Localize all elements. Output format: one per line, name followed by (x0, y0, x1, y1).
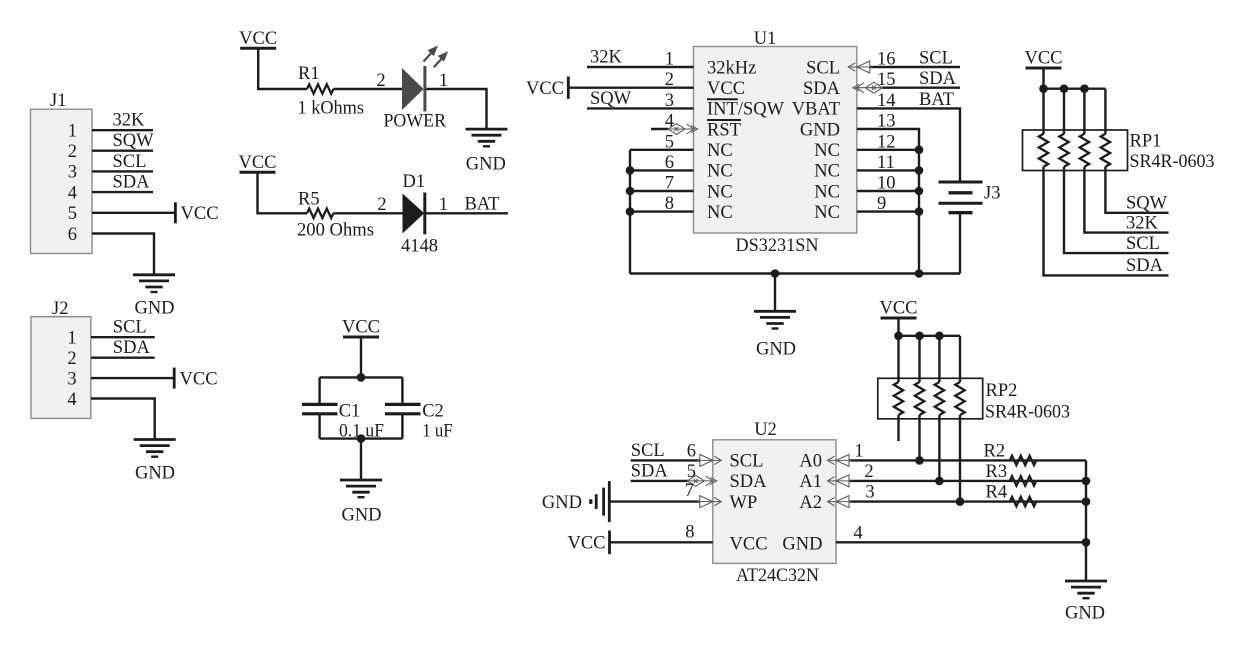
svg-text:200 Ohms: 200 Ohms (297, 221, 374, 241)
net label SDA (U2 pin 5) (631, 461, 669, 481)
power VCC (RP2) (879, 299, 917, 319)
wire U2 pin 4 GND to rail (836, 541, 1086, 543)
wire U1 pin 15 net SDA (882, 86, 960, 88)
power VCC (J2 pin 3) (174, 368, 217, 390)
net label BAT (U1 pin 14) (919, 90, 954, 110)
wire J2 pin 3 to VCC (91, 377, 174, 379)
svg-text:SQW: SQW (1126, 194, 1168, 214)
D1 pin 2 number (377, 195, 386, 215)
svg-text:GND: GND (466, 154, 506, 174)
svg-text:14: 14 (877, 91, 896, 111)
svg-text:POWER: POWER (384, 112, 447, 132)
wire U1 pin 13 GND (857, 129, 919, 274)
IC U2 part number AT24C32N (736, 566, 819, 586)
svg-text:1: 1 (854, 441, 863, 461)
wire RP2 resistor 4 top lead (959, 336, 961, 382)
wire RP1 top bus (1044, 87, 1106, 89)
value 1 kOhms (298, 98, 365, 118)
wire cap top bus (320, 376, 403, 378)
svg-text:4: 4 (665, 112, 674, 132)
IC U2 body (713, 440, 836, 564)
junction RP1 r2 (1060, 84, 1069, 93)
wire R5 to D1 pin 2 (333, 212, 402, 214)
net label 32K (RP1) (1126, 213, 1159, 233)
svg-text:32K: 32K (590, 48, 623, 68)
svg-text:RP2: RP2 (986, 381, 1018, 401)
svg-text:R3: R3 (986, 462, 1008, 482)
svg-text:4: 4 (67, 390, 76, 410)
J1 pin 5 number (68, 204, 77, 224)
net label SCL (J1 pin 3) (113, 152, 147, 172)
svg-text:INT/SQW: INT/SQW (707, 100, 785, 120)
wire U1 pin 8 NC (630, 210, 694, 212)
U2 pin name WP (730, 493, 758, 513)
svg-text:1: 1 (665, 50, 674, 70)
svg-text:1: 1 (67, 329, 76, 349)
battery J3 plates (939, 182, 983, 213)
value 200 Ohms (297, 221, 374, 241)
U1 pin name INT/SQW (pin 3) (707, 100, 785, 120)
U1 pin name SCL (pin 16) (806, 58, 840, 78)
resistor pack RP2 element 4 (955, 382, 964, 415)
svg-text:SCL: SCL (919, 49, 953, 69)
svg-text:NC: NC (814, 203, 840, 223)
svg-text:16: 16 (877, 50, 896, 70)
svg-text:RST: RST (707, 120, 741, 140)
junction RP2 r3 (935, 332, 944, 341)
svg-text:SDA: SDA (1126, 256, 1164, 276)
resistor R3 (1010, 476, 1036, 485)
wire cap bottom bus (320, 437, 403, 439)
junction RP2 r1 (894, 332, 903, 341)
J1 pin 6 number (68, 225, 77, 245)
connector J2 body (31, 317, 91, 419)
svg-text:VCC: VCC (567, 534, 605, 554)
wire RP2 resistor 1 top lead (897, 336, 899, 382)
wire U2 pin 6 net SCL (631, 459, 701, 461)
wire C2 top lead (401, 377, 403, 404)
U1 pin name GND (pin 13) (800, 120, 840, 140)
U1 pin 11 number (877, 153, 895, 173)
resistor pack RP1 element 1 (1039, 134, 1048, 167)
op IC U1 refdes (754, 29, 777, 49)
ground label GND (caps) (341, 506, 381, 526)
svg-text:SCL: SCL (806, 58, 840, 78)
connector J1 refdes (50, 91, 66, 111)
label RP1 (1130, 132, 1162, 152)
resistor pack RP2 element 2 (915, 382, 924, 415)
resistor R4 (1010, 497, 1036, 506)
svg-text:SDA: SDA (631, 461, 669, 481)
ground (U2 rail) (1065, 581, 1107, 598)
junction U1 pin 11 (915, 166, 924, 175)
wire RP2 resistor 3 top lead (938, 336, 940, 382)
svg-text:VCC: VCC (238, 153, 276, 173)
wire U1 bottom GND rail (630, 272, 960, 274)
svg-text:C2: C2 (422, 402, 444, 422)
value SR4R-0603 (RP1) (1130, 152, 1215, 172)
U1 pin name NC (pin 5) (707, 141, 733, 161)
svg-text:32kHz: 32kHz (707, 58, 756, 78)
wire U1 pin 10 NC (857, 190, 919, 192)
svg-text:SDA: SDA (113, 173, 151, 193)
U1 pin 6 number (665, 153, 674, 173)
U2 pin 3 arrow (828, 496, 853, 508)
svg-text:4: 4 (68, 183, 77, 203)
capacitor C2 (385, 404, 421, 413)
junction U1 pin 12 (915, 146, 924, 155)
svg-text:3: 3 (67, 369, 76, 389)
svg-text:1 kOhms: 1 kOhms (298, 98, 365, 118)
power VCC (R1 branch) (239, 29, 277, 49)
svg-text:A1: A1 (799, 472, 822, 492)
junction rail R4 (1082, 497, 1091, 506)
wire RP1 resistor 3 top lead (1083, 89, 1085, 134)
U1 pin 8 number (665, 194, 674, 214)
svg-text:VCC: VCC (1024, 49, 1062, 69)
svg-text:32K: 32K (1126, 213, 1159, 233)
svg-text:C1: C1 (339, 402, 361, 422)
value 0.1 uF (339, 421, 384, 441)
U2 pin 5 arrow (687, 475, 717, 486)
J2 pin 4 number (67, 390, 76, 410)
svg-text:2: 2 (376, 71, 385, 91)
junction RP2-A1 (935, 477, 944, 486)
junction RP1 r1 (1039, 84, 1048, 93)
svg-text:VCC: VCC (707, 79, 745, 99)
svg-text:J2: J2 (52, 299, 68, 319)
U2 pin 2 number (864, 462, 873, 482)
net label SCL (U2 pin 6) (631, 441, 665, 461)
net label SQW (U1 pin 3) (590, 89, 632, 109)
junction U1 right bus bottom (915, 269, 924, 278)
resistor R5 (307, 209, 333, 218)
resistor R1 (307, 84, 333, 93)
power VCC (R5 branch) (238, 153, 276, 173)
U1 RST overline (707, 119, 741, 121)
J1 pin 1 number (68, 122, 77, 142)
svg-text:NC: NC (707, 182, 733, 202)
wire RP2 top bus (899, 335, 961, 337)
LED pin 2 number (376, 71, 385, 91)
wire J1 pin 3 net SCL (92, 170, 153, 172)
net label SQW (J1 pin 2) (113, 131, 155, 151)
U2 pin 2 arrow (828, 475, 853, 487)
ground (U1 rail) (754, 311, 796, 328)
wire J1 pin 4 net SDA (92, 191, 153, 193)
resistor R2 (1010, 456, 1036, 465)
net label SDA (J1 pin 4) (113, 173, 151, 193)
svg-text:R4: R4 (986, 483, 1008, 503)
J2 pin 2 number (67, 349, 76, 369)
U1 pin 4 number (665, 112, 674, 132)
svg-text:R2: R2 (984, 441, 1006, 461)
label RP2 (986, 381, 1018, 401)
J2 pin 3 number (67, 369, 76, 389)
U1 pin name NC (pin 8) (707, 203, 733, 223)
svg-text:WP: WP (730, 493, 758, 513)
U2 pin name A2 (799, 493, 822, 513)
svg-text:GND: GND (756, 340, 796, 360)
label D1 (403, 172, 426, 192)
wire U2 pin 7 WP (611, 500, 701, 502)
U1 pin 12 number (877, 132, 896, 152)
U2 pin name A0 (799, 452, 822, 472)
U2 pin name A1 (799, 472, 822, 492)
net label SDA (RP1) (1126, 256, 1164, 276)
wire U1 pin 4 RST stub (651, 128, 668, 130)
wire U1 pin 1 net 32K (587, 66, 694, 68)
svg-text:VCC: VCC (180, 369, 218, 389)
resistor pack RP1 element 4 (1101, 134, 1110, 167)
svg-text:VCC: VCC (526, 79, 564, 99)
svg-text:SQW: SQW (590, 89, 632, 109)
U1 pin name NC (pin 11) (814, 162, 840, 182)
wire C1 top lead (318, 377, 320, 404)
wire U2 pin 2 A1 to rail (850, 480, 1087, 482)
ground label GND (U2 rail) (1065, 604, 1105, 624)
svg-text:1 uF: 1 uF (422, 421, 453, 441)
wire J1 pin 5 to VCC (92, 212, 175, 214)
svg-text:VCC: VCC (730, 534, 768, 554)
svg-text:R5: R5 (298, 190, 320, 210)
svg-text:GND: GND (1065, 604, 1105, 624)
net label SCL (J2 pin 1) (113, 318, 147, 338)
wire RP1 resistor 1 top lead (1042, 89, 1044, 134)
wire battery J3 bottom lead (959, 213, 961, 274)
wire GND stub (U1 rail) (774, 274, 776, 312)
svg-text:6: 6 (68, 225, 77, 245)
net label SDA (J2 pin 2) (113, 338, 151, 358)
value SR4R-0603 (RP2) (985, 403, 1070, 423)
svg-text:SCL: SCL (631, 441, 665, 461)
wire C1 bottom lead (318, 414, 320, 439)
wire U1 pin 3 net SQW (587, 107, 694, 109)
wire VCC to RP2 bus (897, 318, 899, 336)
resistor pack RP1 element 3 (1080, 134, 1089, 167)
U1 pin name NC (pin 12) (814, 141, 840, 161)
junction cap top (357, 373, 366, 382)
wire U1 pin 5 NC (630, 149, 694, 151)
U1 pin name SDA (pin 15) (803, 79, 841, 99)
wire U2 pin 5 net SDA (631, 480, 688, 482)
svg-text:NC: NC (707, 203, 733, 223)
junction rail R3 (1082, 477, 1091, 486)
svg-text:SDA: SDA (803, 79, 841, 99)
wire U1 pin 7 NC (630, 190, 694, 192)
svg-text:BAT: BAT (465, 195, 500, 215)
svg-text:4148: 4148 (401, 237, 438, 257)
U1 pin 9 number (877, 194, 886, 214)
label POWER (384, 112, 447, 132)
wire VCC to R5 (258, 172, 308, 213)
svg-text:SCL: SCL (113, 152, 147, 172)
svg-text:4: 4 (853, 523, 862, 543)
svg-text:SDA: SDA (919, 69, 957, 89)
ground label GND (J1) (134, 299, 174, 319)
LED light arrow 1 (424, 46, 439, 62)
wire D1 to BAT net (426, 212, 508, 214)
svg-text:BAT: BAT (919, 90, 954, 110)
U2 pin name SDA (730, 472, 768, 492)
U1 pin 5 number (665, 132, 674, 152)
resistor pack RP1 body (1023, 130, 1128, 171)
svg-text:VCC: VCC (342, 318, 380, 338)
svg-text:7: 7 (665, 174, 674, 194)
IC U2 refdes (754, 420, 777, 440)
U1 pin name NC (pin 6) (707, 162, 733, 182)
ground (J2 pin 4) (134, 440, 176, 457)
svg-text:SR4R-0603: SR4R-0603 (985, 403, 1070, 423)
wire J2 pin 4 to GND (91, 399, 155, 440)
label C2 (422, 402, 444, 422)
svg-text:3: 3 (68, 163, 77, 183)
svg-text:9: 9 (877, 194, 886, 214)
svg-text:A2: A2 (799, 493, 822, 513)
wire RP1 element 2 to net SCL (1064, 167, 1169, 253)
wire R1 to LED pin 2 (333, 88, 402, 90)
ground label GND (LED) (466, 154, 506, 174)
U1 pin 1 number (665, 50, 674, 70)
U1 pin 16 number (877, 50, 896, 70)
net label 32K (U1 pin 1) (590, 48, 623, 68)
svg-text:2: 2 (864, 462, 873, 482)
svg-text:VBAT: VBAT (792, 100, 840, 120)
power VCC (U2 pin 8) (567, 531, 609, 555)
wire RP2 element 4 bottom lead (959, 415, 961, 502)
svg-text:SCL: SCL (113, 318, 147, 338)
U2 pin 5 number (687, 462, 696, 482)
svg-text:10: 10 (877, 174, 896, 194)
U1 pin 15 arrow (853, 82, 883, 93)
svg-text:AT24C32N: AT24C32N (736, 566, 819, 586)
junction RP2 r2 (915, 332, 924, 341)
svg-text:12: 12 (877, 132, 896, 152)
U2 pin name VCC (730, 534, 768, 554)
junction RP2-A2 (956, 497, 965, 506)
svg-text:GND: GND (782, 534, 822, 554)
ground (C1 C2) (340, 480, 382, 497)
label R4 (986, 483, 1008, 503)
net label SQW (RP1) (1126, 194, 1168, 214)
svg-text:NC: NC (814, 162, 840, 182)
label R3 (986, 462, 1008, 482)
IC U1 body (694, 47, 857, 234)
svg-text:D1: D1 (403, 172, 426, 192)
svg-text:GND: GND (135, 464, 175, 484)
U1 pin name NC (pin 7) (707, 182, 733, 202)
label C1 (339, 402, 361, 422)
connector J1 body (31, 109, 93, 253)
junction U1 pin 6 (626, 166, 635, 175)
svg-text:RP1: RP1 (1130, 132, 1162, 152)
U1 pin name VCC (pin 2) (707, 79, 745, 99)
svg-text:3: 3 (665, 91, 674, 111)
svg-text:6: 6 (665, 153, 674, 173)
battery J3 refdes (984, 184, 1000, 204)
U1 pin 14 number (877, 91, 896, 111)
wire J1 pin 1 net 32K (92, 129, 153, 131)
resistor pack RP2 element 3 (935, 382, 944, 415)
svg-text:GND: GND (341, 506, 381, 526)
power VCC (RP1) (1024, 49, 1062, 69)
U1 pin 7 number (665, 174, 674, 194)
svg-text:GND: GND (134, 299, 174, 319)
J1 pin 2 number (68, 142, 77, 162)
svg-text:NC: NC (707, 162, 733, 182)
J2 pin 1 number (67, 329, 76, 349)
svg-text:7: 7 (685, 481, 694, 501)
svg-text:13: 13 (877, 112, 896, 132)
ground label GND (J2) (135, 464, 175, 484)
LED pin 1 number (439, 71, 448, 91)
U1 pin 4 input arrow (668, 124, 698, 135)
svg-text:DS3231SN: DS3231SN (736, 236, 819, 256)
U2 pin 8 number (685, 522, 694, 542)
junction U1 pin 8 (626, 207, 635, 216)
svg-text:A0: A0 (799, 452, 822, 472)
U1 INT overline (707, 98, 738, 100)
wire RP1 element 4 to net SQW (1105, 167, 1168, 213)
wire VCC to RP1 bus (1042, 68, 1044, 89)
wire LED to GND (426, 89, 486, 129)
svg-text:NC: NC (814, 141, 840, 161)
junction RP2-A0 (915, 456, 924, 465)
U1 pin name NC (pin 9) (814, 203, 840, 223)
label R5 (298, 190, 320, 210)
resistor pack RP1 element 2 (1059, 134, 1068, 167)
junction U1 pin 9 (915, 207, 924, 216)
U1 pin name VBAT (pin 14) (792, 100, 840, 120)
wire C2 bottom lead (401, 414, 403, 439)
ground label GND (U1) (756, 340, 796, 360)
svg-text:U2: U2 (754, 420, 777, 440)
svg-text:SDA: SDA (113, 338, 151, 358)
wire RP1 resistor 2 top lead (1063, 89, 1065, 134)
ground sideways (U2 WP) (542, 481, 609, 522)
svg-text:6: 6 (687, 441, 696, 461)
wire RP2 element 2 bottom lead (918, 415, 920, 460)
U1 pin 15 number (877, 70, 896, 90)
wire U1 pin 6 NC (630, 169, 694, 171)
J1 pin 4 number (68, 183, 77, 203)
ground (J1 pin 6) (133, 275, 175, 292)
wire U1 pin 2 VCC (568, 86, 693, 88)
U2 pin name GND (782, 534, 822, 554)
wire U1 pin 11 NC (857, 169, 919, 171)
U2 pin name SCL (730, 452, 764, 472)
power VCC (U1 pin 2) (526, 77, 568, 100)
U2 pin 1 number (854, 441, 863, 461)
wire RP2 element 3 bottom lead (938, 415, 940, 481)
svg-text:2: 2 (68, 142, 77, 162)
svg-text:8: 8 (685, 522, 694, 542)
ground (LED) (466, 129, 508, 146)
junction cap bottom (357, 434, 366, 443)
U2 pin 1 arrow (828, 454, 853, 466)
U2 pin 3 number (865, 483, 874, 503)
diode D1 body (403, 193, 425, 235)
wire RP1 element 3 to net 32K (1084, 167, 1168, 233)
resistor pack RP2 body (878, 378, 983, 419)
svg-text:3: 3 (865, 483, 874, 503)
net label SCL (U1 pin 16) (919, 49, 953, 69)
U1 pin 16 arrow (848, 61, 873, 73)
svg-text:NC: NC (814, 182, 840, 202)
svg-text:15: 15 (877, 70, 896, 90)
LED POWER body (402, 66, 425, 112)
U2 pin 4 number (853, 523, 862, 543)
